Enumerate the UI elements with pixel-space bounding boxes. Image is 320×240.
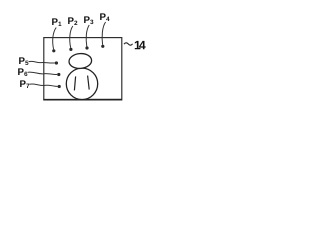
node P5 dot <box>55 61 58 64</box>
person body (torso circle) <box>66 68 97 99</box>
node P1 dot <box>52 49 55 52</box>
leader P1 <box>53 28 57 50</box>
person head (ellipse) <box>69 53 93 69</box>
bottom edge thick line <box>43 99 121 101</box>
label P5 <box>19 57 28 65</box>
label P1 <box>52 18 61 26</box>
leader P2 <box>70 26 73 48</box>
leader P4 <box>102 22 105 45</box>
node P2 dot <box>69 48 72 51</box>
label P4 <box>100 13 109 21</box>
leader P5 <box>29 61 55 63</box>
label P7 <box>20 80 29 88</box>
person left arm line <box>74 76 75 90</box>
node P4 dot <box>101 45 104 48</box>
tilde leader to 14 <box>124 43 133 45</box>
box 14 (enclosure rectangle) <box>44 38 122 100</box>
label P6 <box>18 68 27 76</box>
leader P3 <box>86 25 89 47</box>
node P7 dot <box>58 85 61 88</box>
node P6 dot <box>57 73 60 76</box>
leader P6 <box>28 72 58 74</box>
label P3 <box>84 16 93 24</box>
label P2 <box>68 17 77 25</box>
node P3 dot <box>85 46 88 49</box>
leader P7 <box>30 84 58 86</box>
reference numeral 14 <box>135 41 146 49</box>
person right arm line <box>88 76 90 90</box>
